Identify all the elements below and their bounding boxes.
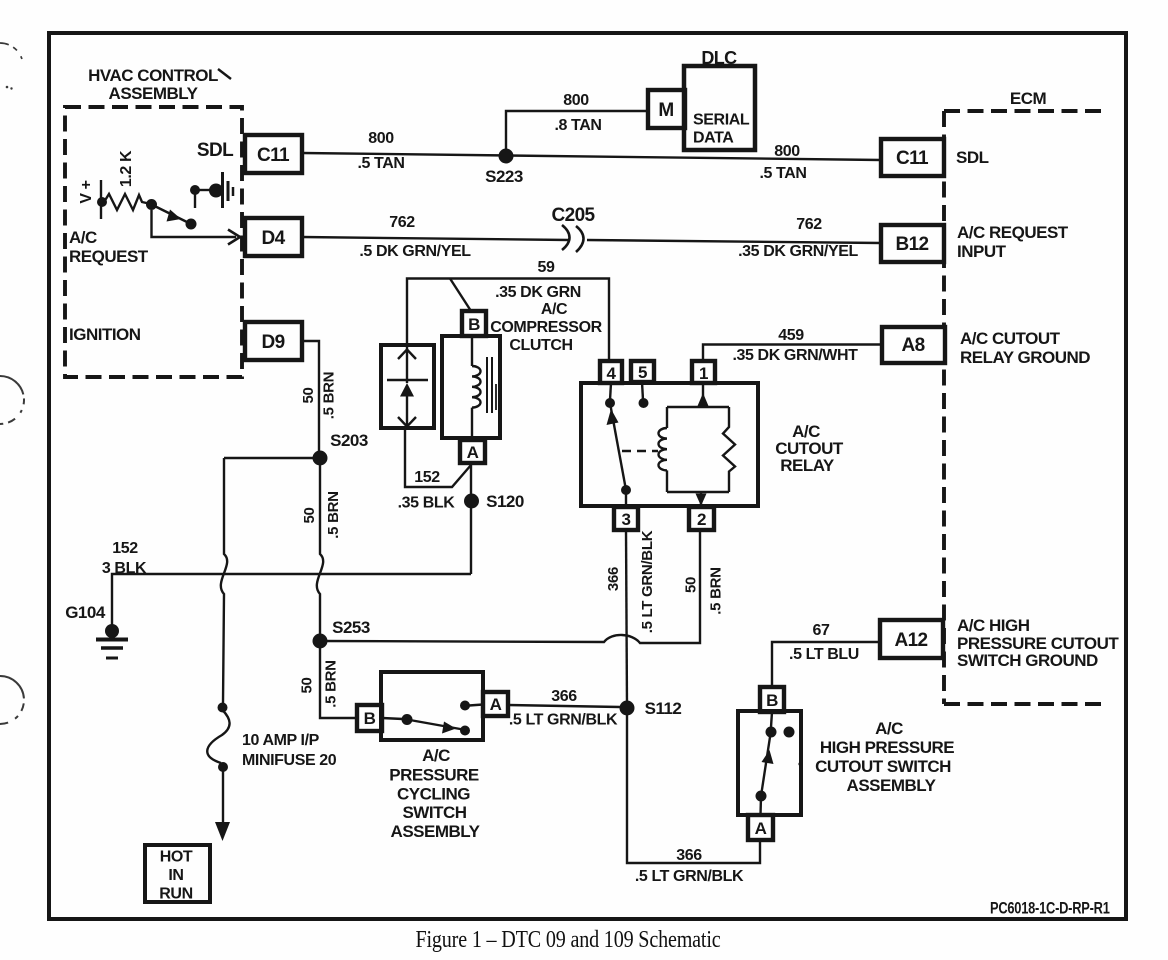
svg-text:Figure 1 – DTC 09 and 109 Sche: Figure 1 – DTC 09 and 109 Schematic [416, 927, 721, 953]
svg-text:.35 DK GRN/YEL: .35 DK GRN/YEL [738, 243, 858, 260]
wire 366 .5 LT GRN/BLK S112 to high pressure switch A [627, 708, 760, 885]
splice S203 [313, 431, 368, 466]
wire 800 .8 TAN to DLC [506, 92, 648, 156]
A/C high pressure cutout switch ground label [957, 616, 1119, 670]
relay pin 1 [692, 361, 715, 383]
svg-text:C205: C205 [551, 205, 595, 226]
A/C request switch [146, 185, 200, 230]
svg-text:B: B [364, 709, 376, 728]
svg-text:S120: S120 [486, 492, 524, 511]
A/C request input label [957, 223, 1069, 261]
binder hole bottom [0, 676, 24, 724]
wire 762 .5 DK GRN/YEL left segment [302, 214, 569, 260]
connector A (compressor clutch) [460, 440, 485, 463]
svg-text:1: 1 [699, 364, 708, 383]
svg-text:RELAY: RELAY [780, 456, 835, 475]
svg-text:366: 366 [605, 567, 622, 591]
splice S253 [313, 618, 370, 649]
svg-text:PRESSURE: PRESSURE [389, 766, 479, 785]
svg-text:50: 50 [301, 507, 318, 523]
svg-text:800: 800 [563, 92, 589, 109]
svg-text:A: A [467, 443, 479, 462]
relay switch contacts [605, 382, 649, 507]
svg-text:3: 3 [622, 510, 631, 529]
V+ supply [78, 180, 101, 219]
svg-text:1.2 K: 1.2 K [118, 150, 135, 187]
svg-text:CUTOUT SWITCH: CUTOUT SWITCH [815, 757, 951, 776]
svg-text:A: A [490, 695, 502, 714]
svg-text:SDL: SDL [956, 148, 989, 167]
relay pin 5 [631, 361, 654, 382]
svg-text:800: 800 [774, 143, 800, 160]
ground SDL (HVAC internal) [199, 172, 233, 208]
svg-text:DATA: DATA [693, 130, 734, 147]
svg-text:.5 LT GRN/BLK: .5 LT GRN/BLK [509, 712, 618, 729]
svg-text:RELAY GROUND: RELAY GROUND [960, 348, 1090, 367]
svg-text:152: 152 [112, 540, 138, 557]
svg-text:152: 152 [414, 469, 440, 486]
wire 50 .5 BRN S253 to relay pin 2 (hop over 366) [320, 530, 725, 643]
A/C high pressure cutout switch box [738, 711, 801, 815]
svg-text:A/C REQUEST: A/C REQUEST [957, 223, 1069, 242]
wire 800 .5 TAN left segment [302, 130, 881, 172]
wire S203 to fuse branch [224, 457, 320, 459]
connector B (compressor clutch) [462, 311, 486, 336]
binder hole top [0, 43, 23, 66]
svg-text:S253: S253 [332, 618, 370, 637]
svg-text:INPUT: INPUT [957, 242, 1007, 261]
svg-text:REQUEST: REQUEST [69, 247, 149, 266]
svg-text:RUN: RUN [159, 886, 192, 903]
svg-text:COMPRESSOR: COMPRESSOR [490, 319, 602, 336]
A/C compressor clutch coil box [442, 336, 500, 440]
svg-text:ASSEMBLY: ASSEMBLY [391, 822, 481, 841]
A/C pressure cycling switch box [381, 672, 483, 740]
svg-text:800: 800 [368, 130, 394, 147]
svg-text:C11: C11 [896, 148, 929, 169]
wire fuse feed (hop over 152) [221, 458, 227, 703]
svg-text:SERIAL: SERIAL [693, 112, 750, 129]
wire 152 3 BLK ground run [102, 540, 471, 631]
svg-text:.35 BLK: .35 BLK [398, 495, 456, 512]
ground G104 [65, 603, 128, 658]
connector A12 (ECM) [880, 620, 943, 658]
svg-text:S112: S112 [645, 699, 682, 718]
svg-text:SWITCH: SWITCH [402, 803, 466, 822]
wire 59 .35 DK GRN net [407, 259, 609, 361]
wire 50 .5 BRN from D9 [300, 341, 338, 458]
svg-text:DLC: DLC [701, 48, 737, 68]
svg-text:IN: IN [168, 867, 183, 884]
A/C cutout relay ground label [960, 329, 1090, 367]
svg-text:.5 LT GRN/BLK: .5 LT GRN/BLK [639, 530, 656, 633]
svg-text:M: M [658, 100, 673, 121]
svg-text:.5 LT GRN/BLK: .5 LT GRN/BLK [635, 868, 744, 885]
svg-text:B12: B12 [895, 234, 928, 255]
svg-text:MINIFUSE 20: MINIFUSE 20 [242, 752, 337, 769]
svg-text:67: 67 [813, 622, 830, 639]
relay coil [659, 383, 736, 507]
connector B (pressure cycling switch) [357, 705, 382, 731]
svg-text:.5 BRN: .5 BRN [708, 567, 725, 614]
connector A (pressure cycling switch) [483, 692, 508, 716]
svg-text:10 AMP I/P: 10 AMP I/P [242, 732, 320, 749]
svg-text:SDL: SDL [197, 140, 234, 161]
wire 152 .35 BLK diode to S120 [398, 428, 471, 512]
svg-text:A/C: A/C [875, 719, 903, 738]
svg-text:ASSEMBLY: ASSEMBLY [847, 776, 937, 795]
svg-text:762: 762 [796, 216, 822, 233]
A/C pressure cycling switch assembly label [389, 746, 480, 841]
svg-text:50: 50 [299, 677, 316, 693]
svg-text:.8 TAN: .8 TAN [554, 117, 601, 134]
svg-text:366: 366 [676, 847, 702, 864]
fuse 10 AMP I/P minifuse 20 [207, 703, 337, 842]
wire switch to D4 with arrow [152, 210, 241, 245]
svg-text:A12: A12 [894, 630, 927, 651]
A/C REQUEST label [69, 228, 149, 266]
svg-text:A/C: A/C [422, 746, 450, 765]
HVAC control assembly dashed box [65, 107, 242, 377]
splice S112 [620, 699, 682, 718]
ECM dashed boundary [944, 111, 1106, 704]
svg-text:.5 DK GRN/YEL: .5 DK GRN/YEL [359, 243, 471, 260]
A/C cutout relay box [581, 383, 758, 506]
relay mechanical link dashed [622, 450, 658, 453]
connector A (high pressure switch) [748, 815, 773, 840]
svg-text:A: A [755, 819, 767, 838]
resistor 1.2K [97, 150, 151, 210]
wire 459 .35 DK GRN/WHT [703, 327, 882, 364]
svg-text:CLUTCH: CLUTCH [509, 337, 572, 354]
svg-text:HIGH PRESSURE: HIGH PRESSURE [820, 738, 954, 757]
connector M (DLC) [648, 90, 685, 128]
wire clutch A to S120 [470, 463, 472, 574]
svg-text:459: 459 [778, 327, 804, 344]
connector C11 (HVAC) [245, 135, 302, 173]
svg-text:50: 50 [683, 577, 700, 593]
svg-text:50: 50 [300, 387, 317, 403]
wire 366 .5 LT GRN/BLK relay pin 3 to S112 [605, 530, 656, 708]
connector B (high pressure switch) [760, 687, 784, 712]
splice S223 [485, 149, 523, 187]
svg-text:.5 LT BLU: .5 LT BLU [789, 646, 859, 663]
svg-text:762: 762 [389, 214, 415, 231]
relay pin 2 [689, 507, 714, 530]
svg-text:A/C HIGH: A/C HIGH [957, 616, 1030, 635]
wire 50 .5 BRN S203 to S253 (hop over 152) [301, 458, 342, 641]
svg-text:G104: G104 [65, 603, 106, 622]
svg-text:ECM: ECM [1010, 89, 1047, 108]
drawing number PC6018-1C-D-RP-R1 [990, 900, 1110, 918]
svg-text:SWITCH GROUND: SWITCH GROUND [957, 651, 1098, 670]
svg-text:59: 59 [538, 259, 555, 276]
relay pin 3 [614, 507, 638, 530]
svg-text:D9: D9 [261, 332, 284, 353]
svg-text:5: 5 [638, 363, 647, 382]
connector B12 (ECM) [881, 225, 944, 262]
svg-text:ASSEMBLY: ASSEMBLY [109, 84, 199, 103]
wire 67 .5 LT BLU to A12 [772, 622, 881, 687]
svg-text:.5 TAN: .5 TAN [357, 155, 404, 172]
connector D9 (HVAC) [245, 322, 302, 360]
splice S120 [464, 492, 524, 511]
svg-text:C11: C11 [257, 145, 290, 166]
svg-text:A/C CUTOUT: A/C CUTOUT [960, 329, 1061, 348]
HVAC control assembly label [88, 66, 231, 103]
DLC serial data box [684, 48, 755, 150]
svg-text:.35 DK GRN/WHT: .35 DK GRN/WHT [732, 347, 858, 364]
HOT IN RUN box [145, 845, 210, 903]
svg-text:PC6018-1C-D-RP-R1: PC6018-1C-D-RP-R1 [990, 900, 1110, 918]
A/C cutout relay label [775, 422, 844, 475]
svg-text:3 BLK: 3 BLK [102, 560, 147, 577]
relay pin 4 [600, 361, 622, 383]
A/C compressor clutch label [490, 301, 602, 354]
svg-text:A8: A8 [901, 335, 924, 356]
svg-text:.5 BRN: .5 BRN [321, 372, 338, 419]
wire 762 .35 DK GRN/YEL right segment [587, 216, 881, 260]
wire S253 to pressure switch B [299, 641, 358, 718]
connector C11 (ECM) [881, 139, 944, 176]
svg-text:A/C: A/C [69, 228, 97, 247]
svg-text:4: 4 [607, 364, 617, 383]
svg-text:S203: S203 [330, 431, 368, 450]
svg-text:HOT: HOT [160, 849, 193, 866]
clutch diode box [381, 345, 434, 428]
svg-text:B: B [766, 691, 778, 710]
svg-text:V +: V + [78, 180, 95, 203]
svg-text:.35 DK GRN: .35 DK GRN [495, 284, 581, 301]
connector D4 (HVAC) [245, 218, 302, 256]
svg-text:366: 366 [551, 688, 577, 705]
svg-text:CYCLING: CYCLING [397, 785, 470, 804]
wire 800 .5 TAN right segment label [759, 143, 806, 182]
in-line connector C205 [551, 205, 595, 252]
svg-text:A/C: A/C [541, 301, 568, 318]
binder hole middle [0, 376, 24, 424]
svg-text:S223: S223 [485, 167, 523, 186]
svg-text:.5 BRN: .5 BRN [323, 660, 340, 707]
svg-text:IGNITION: IGNITION [69, 325, 141, 344]
svg-text:.5 TAN: .5 TAN [759, 165, 806, 182]
connector A8 (ECM) [882, 327, 945, 363]
svg-text:.5 BRN: .5 BRN [325, 491, 342, 538]
svg-text:B: B [468, 315, 480, 334]
svg-text:2: 2 [697, 510, 706, 529]
A/C high pressure cutout switch assembly label [798, 719, 954, 795]
svg-text:HVAC CONTROL: HVAC CONTROL [88, 66, 218, 85]
svg-text:D4: D4 [261, 228, 285, 249]
wire 366 .5 LT GRN/BLK switch A to S112 [508, 688, 620, 729]
